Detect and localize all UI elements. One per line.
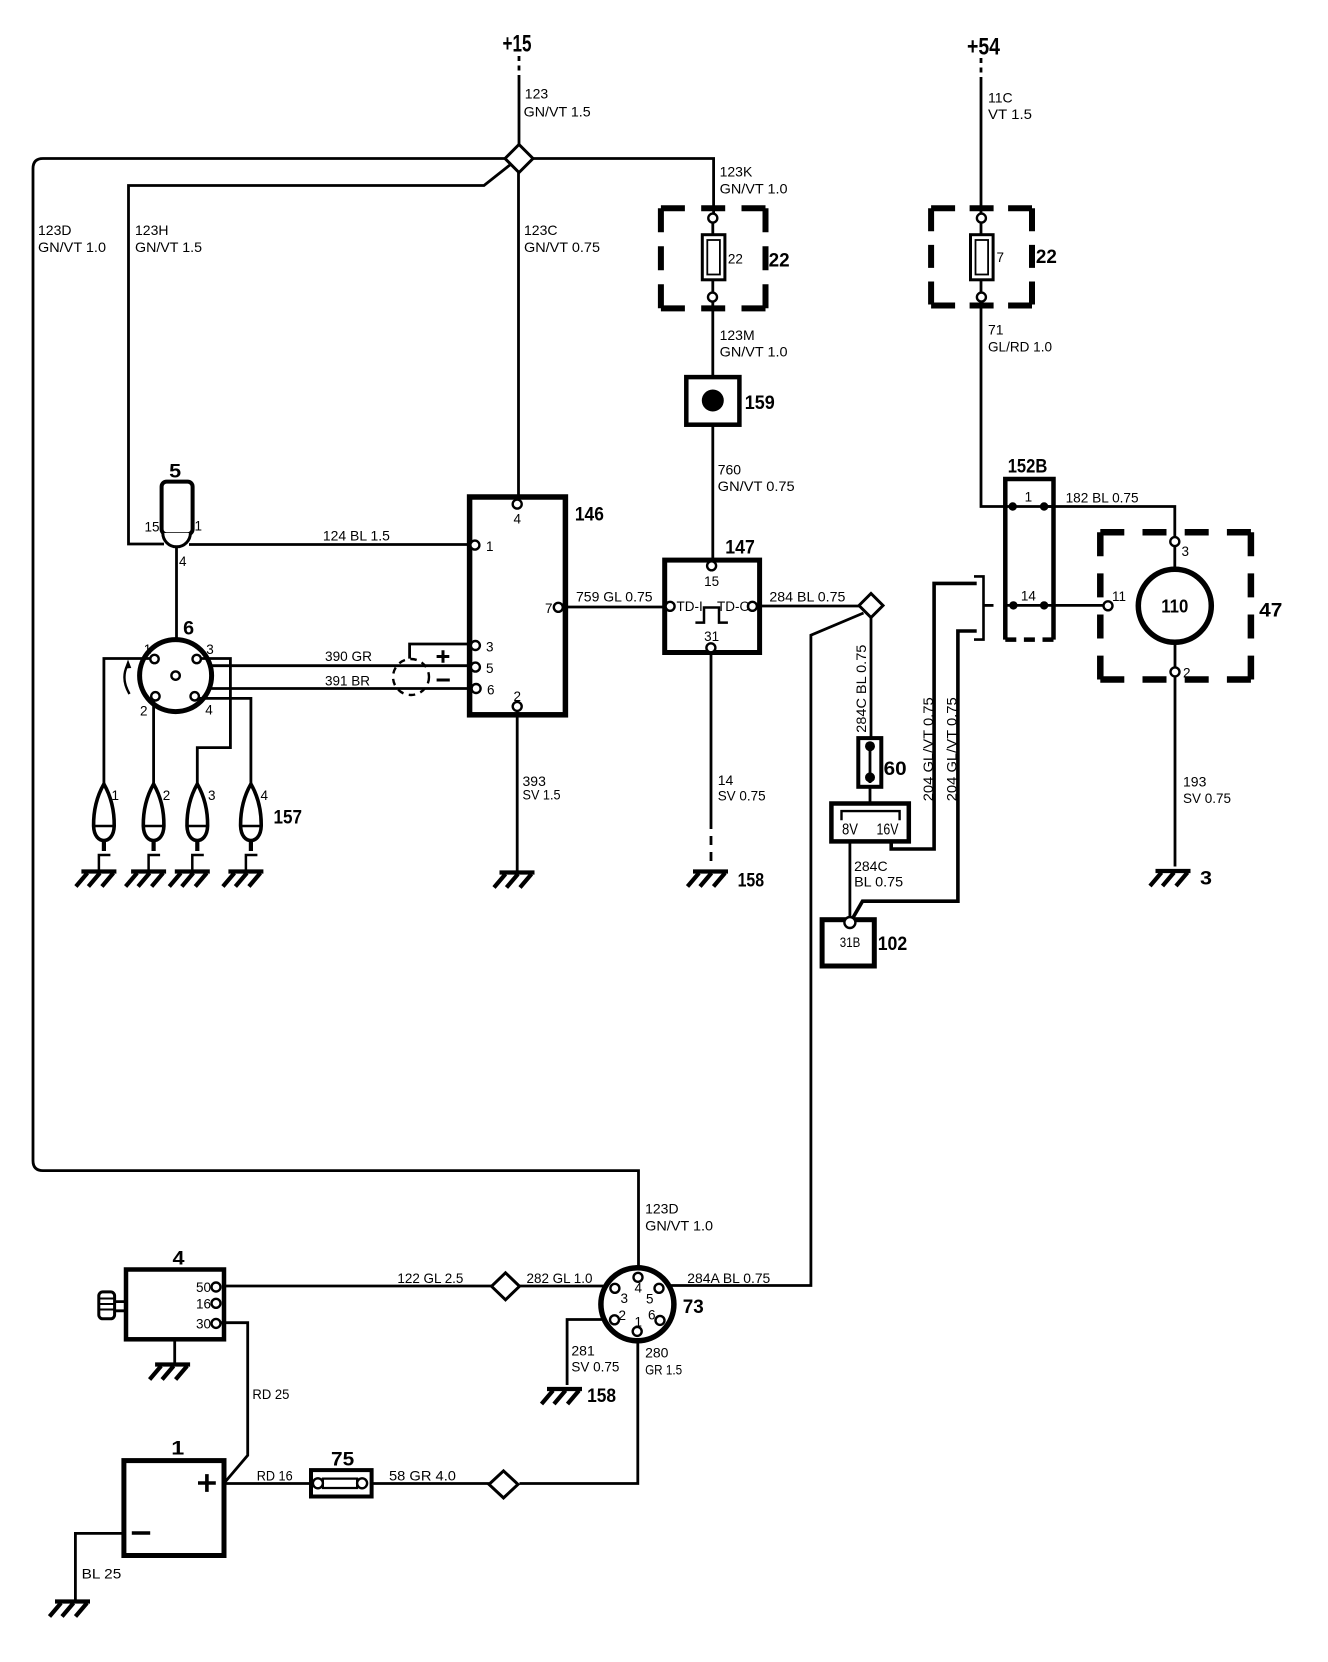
svg-text:22: 22 — [728, 252, 743, 267]
svg-text:102: 102 — [878, 934, 908, 955]
wire 284 BL 0.75 from TD-O — [760, 605, 860, 608]
svg-text:158: 158 — [587, 1386, 616, 1407]
wire 204 GL/VT 0.75 second run to 102 — [851, 631, 977, 922]
wire 390 GR pickup to 146 pin 5 — [212, 664, 472, 667]
spark plug 4 — [241, 784, 262, 872]
svg-text:284A BL 0.75: 284A BL 0.75 — [687, 1270, 770, 1286]
wire 393 SV 1.5 from 146 pin 2 to ground — [516, 711, 519, 872]
spark plug 3 — [187, 784, 208, 872]
wire distributor terminal 2 to plug 2 — [152, 700, 155, 784]
wire 71 down to 152B pin 1 — [981, 301, 1005, 507]
svg-text:122 GL 2.5: 122 GL 2.5 — [397, 1270, 463, 1286]
svg-text:284C BL 0.75: 284C BL 0.75 — [853, 644, 869, 732]
svg-text:4: 4 — [261, 788, 269, 803]
svg-text:1: 1 — [195, 519, 203, 534]
svg-text:73: 73 — [683, 1297, 704, 1318]
svg-text:158: 158 — [738, 871, 765, 892]
wire 759 GL 0.75 from 146 pin 7 to 147 TD-I — [565, 606, 664, 609]
svg-text:GN/VT 1.0: GN/VT 1.0 — [720, 344, 788, 360]
svg-text:2: 2 — [1183, 666, 1191, 681]
wire 284C down to fuse 60 — [870, 618, 873, 741]
svg-text:3: 3 — [486, 640, 494, 655]
svg-text:182 BL 0.75: 182 BL 0.75 — [1066, 490, 1139, 506]
svg-text:RD 25: RD 25 — [252, 1386, 289, 1402]
svg-text:1: 1 — [144, 642, 152, 657]
svg-text:2: 2 — [163, 788, 171, 803]
svg-text:3: 3 — [1182, 544, 1190, 559]
key symbol on ignition switch — [99, 1292, 126, 1319]
fuse 75 — [311, 1450, 372, 1497]
svg-text:390 GR: 390 GR — [325, 648, 372, 664]
svg-text:123M: 123M — [720, 327, 755, 343]
svg-text:16: 16 — [196, 1297, 211, 1312]
svg-text:123C: 123C — [524, 222, 557, 238]
spark plugs 157 — [112, 788, 303, 829]
svg-text:123D: 123D — [38, 222, 71, 238]
svg-text:123H: 123H — [135, 222, 168, 238]
svg-text:123: 123 — [525, 86, 549, 102]
svg-text:5: 5 — [169, 462, 181, 483]
svg-text:SV 0.75: SV 0.75 — [1183, 790, 1231, 806]
ground under battery — [50, 1602, 91, 1617]
svg-text:22: 22 — [1036, 247, 1057, 268]
ground 158 under 147 — [688, 872, 729, 887]
svg-text:280: 280 — [645, 1345, 669, 1361]
wire 282 GL 1.0 to connector 73 — [520, 1285, 607, 1288]
connector 152B — [1005, 457, 1053, 640]
ignition pulse pickup 159 — [686, 377, 775, 560]
svg-text:2: 2 — [140, 704, 148, 719]
wire 204 GL/VT 0.75 from 16V output up to shield connector — [891, 583, 977, 849]
wire RD 16 battery plus to fuse 75 — [224, 1482, 311, 1485]
wire distributor terminal 4 to plug 4 — [199, 698, 251, 784]
ground under spark plug 2 — [126, 872, 167, 887]
svg-text:146: 146 — [575, 505, 604, 526]
svg-text:+54: +54 — [967, 34, 1001, 61]
wire 284A to connector 73 pin 5 — [669, 613, 864, 1286]
svg-text:193: 193 — [1183, 774, 1207, 790]
wire 124 BL 1.5 coil to 146 pin 1 — [189, 543, 471, 546]
svg-text:5: 5 — [646, 1292, 654, 1307]
node +54 supply — [967, 34, 1032, 215]
svg-text:123K: 123K — [720, 164, 753, 180]
wire 123H branch — [129, 165, 511, 545]
connector 73 — [601, 1268, 704, 1341]
svg-text:1: 1 — [1025, 490, 1033, 505]
svg-text:31: 31 — [704, 629, 719, 644]
node junction diamond 122/282 — [492, 1273, 520, 1300]
wire 58 GR 4.0 fuse 75 to diamond — [372, 1482, 489, 1485]
ground under ignition switch — [173, 1339, 176, 1363]
spark plug 1 — [94, 784, 115, 872]
ground 3 under tachometer — [1150, 871, 1191, 886]
shield connector bracket — [974, 576, 984, 639]
svg-text:282 GL 1.0: 282 GL 1.0 — [527, 1270, 593, 1286]
svg-text:4: 4 — [179, 554, 187, 569]
wire 122 GL 2.5 from ignition switch — [221, 1285, 492, 1288]
svg-text:GN/VT 1.5: GN/VT 1.5 — [524, 104, 591, 120]
svg-text:GN/VT 1.0: GN/VT 1.0 — [720, 181, 788, 197]
svg-text:157: 157 — [274, 808, 303, 829]
wire RD 25 switch pin 30 to battery plus — [221, 1323, 248, 1482]
svg-text:4: 4 — [514, 512, 522, 527]
svg-text:3: 3 — [621, 1291, 629, 1306]
svg-text:152B: 152B — [1008, 457, 1048, 478]
svg-text:3: 3 — [208, 788, 216, 803]
tachometer 110 — [1104, 537, 1212, 680]
svg-text:GN/VT 1.0: GN/VT 1.0 — [645, 1218, 713, 1234]
svg-text:GN/VT 0.75: GN/VT 0.75 — [718, 478, 795, 494]
node junction diamond 58/280 — [489, 1471, 518, 1498]
svg-text:124 BL 1.5: 124 BL 1.5 — [323, 528, 390, 544]
svg-text:11: 11 — [1112, 589, 1126, 604]
wire 281 SV 0.75 from 73 pin 2 to ground 158 — [567, 1320, 604, 1386]
wire 123D rail: top horizontal and left vertical down to 73 feed — [33, 159, 639, 1269]
svg-text:1: 1 — [486, 539, 494, 554]
wire stub bracket to 152B — [984, 604, 994, 607]
pickup coil symbol (dashed circle with polarity) — [393, 650, 450, 695]
svg-text:5: 5 — [486, 661, 494, 676]
svg-text:16V: 16V — [877, 822, 899, 839]
svg-text:6: 6 — [487, 683, 495, 698]
wire 146 pin 3 shield hook — [410, 644, 471, 659]
svg-text:281: 281 — [571, 1343, 595, 1359]
svg-text:2: 2 — [619, 1308, 627, 1323]
152B pin 1 row — [1005, 490, 1053, 511]
wire label 123D GN/VT 1.0 — [38, 222, 106, 255]
svg-text:30: 30 — [196, 1317, 211, 1332]
wire 280 GR 1.5 from 73 pin 1 — [520, 1341, 638, 1484]
ignition system relay 147 — [665, 538, 760, 653]
svg-text:284 BL 0.75: 284 BL 0.75 — [769, 589, 845, 605]
fuse 60 — [858, 738, 906, 787]
svg-text:4: 4 — [173, 1249, 185, 1270]
svg-text:RD 16: RD 16 — [257, 1468, 293, 1484]
wire 14 SV 0.75 from 147 pin 31 to ground 158 — [710, 653, 713, 821]
ignition switch 4 — [126, 1249, 224, 1340]
ground under spark plug 1 — [76, 872, 117, 887]
svg-text:TD-I: TD-I — [677, 599, 703, 614]
svg-text:TD-O: TD-O — [717, 599, 750, 614]
svg-text:14: 14 — [718, 772, 734, 788]
svg-text:BL 0.75: BL 0.75 — [854, 874, 903, 890]
svg-text:284C: 284C — [854, 858, 887, 874]
svg-text:47: 47 — [1259, 601, 1282, 622]
wire fuse 60 to voltage converter — [869, 787, 872, 812]
svg-text:7: 7 — [997, 250, 1005, 265]
wire distributor terminal 3 to plug 3 — [197, 659, 230, 785]
svg-text:3: 3 — [1200, 869, 1212, 890]
svg-text:6: 6 — [648, 1308, 656, 1323]
wire label 123D GN/VT 1.0 at 73 — [645, 1201, 713, 1234]
svg-text:6: 6 — [183, 619, 194, 640]
svg-text:8V: 8V — [842, 822, 858, 839]
svg-text:391 BR: 391 BR — [325, 673, 370, 689]
svg-text:75: 75 — [331, 1450, 355, 1471]
svg-text:11C: 11C — [988, 90, 1013, 106]
ground under spark plug 3 — [169, 872, 210, 887]
svg-text:760: 760 — [718, 462, 742, 478]
wire label 123K GN/VT 1.0 — [720, 164, 788, 197]
svg-text:GN/VT 1.0: GN/VT 1.0 — [38, 239, 106, 255]
wire +15 feed (dashed stub) — [518, 56, 521, 78]
svg-text:1: 1 — [635, 1315, 643, 1330]
svg-text:SV 1.5: SV 1.5 — [523, 787, 561, 803]
svg-text:71: 71 — [988, 322, 1004, 338]
svg-text:GN/VT 0.75: GN/VT 0.75 — [524, 239, 600, 255]
svg-text:+15: +15 — [503, 31, 532, 58]
svg-text:50: 50 — [196, 1280, 211, 1295]
wire 284C BL 0.75 from 8V output to 102 — [849, 841, 852, 922]
svg-text:SV 0.75: SV 0.75 — [571, 1359, 619, 1375]
svg-text:BL 25: BL 25 — [82, 1566, 122, 1582]
connector terminal 102 (31B) — [822, 917, 907, 966]
fuse 22 (left, fuse 22) — [661, 208, 790, 377]
fuse 22 (right, fuse 7) — [931, 208, 1057, 305]
svg-text:204 GL/VT 0.75: 204 GL/VT 0.75 — [920, 697, 936, 801]
wire BL 25 battery minus to ground — [75, 1533, 124, 1600]
ground 158 under 73 — [542, 1389, 583, 1404]
spark plug 2 — [143, 784, 164, 872]
152B pin 14 row — [1005, 589, 1053, 610]
wire label 193 SV 0.75 — [1183, 774, 1231, 807]
svg-text:110: 110 — [1161, 597, 1188, 617]
svg-text:SV 0.75: SV 0.75 — [718, 788, 766, 804]
svg-text:VT 1.5: VT 1.5 — [988, 106, 1032, 122]
ground under 146 — [494, 873, 535, 888]
svg-text:123D: 123D — [645, 1201, 678, 1217]
wire 123C down to 146 pin 4 — [517, 173, 520, 501]
svg-text:759 GL 0.75: 759 GL 0.75 — [576, 589, 653, 605]
svg-text:60: 60 — [884, 759, 907, 780]
node junction diamond 284 — [859, 594, 883, 618]
control unit 146 — [470, 497, 604, 715]
distributor 6 — [140, 619, 214, 719]
svg-text:15: 15 — [704, 574, 719, 589]
wire label 123H GN/VT 1.5 — [135, 222, 202, 255]
svg-text:2: 2 — [514, 689, 522, 704]
instrument cluster 47 (dashed box) — [1100, 529, 1251, 536]
svg-text:3: 3 — [206, 642, 214, 657]
node +15 supply — [503, 31, 591, 146]
wire label 123M GN/VT 1.0 — [720, 327, 788, 360]
voltage converter 8V/16V — [831, 804, 908, 842]
wire 152B pin 14 to tachometer pin 11 — [1054, 604, 1105, 607]
svg-text:204 GL/VT 0.75: 204 GL/VT 0.75 — [944, 697, 960, 801]
ground under spark plug 4 — [223, 872, 264, 887]
node junction diamond at +15 rail — [505, 145, 533, 173]
svg-text:1: 1 — [171, 1439, 185, 1460]
svg-text:159: 159 — [745, 393, 775, 414]
svg-text:15: 15 — [144, 520, 159, 535]
svg-text:22: 22 — [769, 251, 790, 272]
svg-text:4: 4 — [635, 1281, 643, 1296]
wire label 123C GN/VT 0.75 — [524, 222, 600, 255]
wire label 71 GL/RD 1.0 — [988, 322, 1052, 355]
battery 1 — [124, 1439, 224, 1556]
svg-text:31B: 31B — [840, 935, 861, 950]
svg-text:GN/VT 1.5: GN/VT 1.5 — [135, 239, 202, 255]
wire 391 BR pickup to 146 pin 6 — [211, 687, 471, 690]
wire distributor terminal 1 to plug 1 — [104, 659, 151, 785]
wire top-right to fuse 22 — [533, 159, 714, 215]
wire coil to distributor rotor — [175, 547, 178, 673]
svg-text:14: 14 — [1021, 589, 1037, 604]
svg-text:GR 1.5: GR 1.5 — [645, 1362, 682, 1378]
svg-text:147: 147 — [725, 538, 755, 559]
svg-text:7: 7 — [545, 601, 553, 616]
wire 182 BL 0.75 to tachometer — [1044, 507, 1175, 570]
ignition coil 5 — [144, 462, 202, 570]
svg-text:4: 4 — [205, 703, 213, 718]
svg-text:GL/RD 1.0: GL/RD 1.0 — [988, 339, 1052, 355]
wire label 760 GN/VT 0.75 — [718, 462, 795, 495]
rotation arrow — [124, 660, 131, 695]
wire tachometer pin 2 to ground — [1174, 642, 1177, 866]
svg-text:58 GR 4.0: 58 GR 4.0 — [389, 1468, 456, 1484]
